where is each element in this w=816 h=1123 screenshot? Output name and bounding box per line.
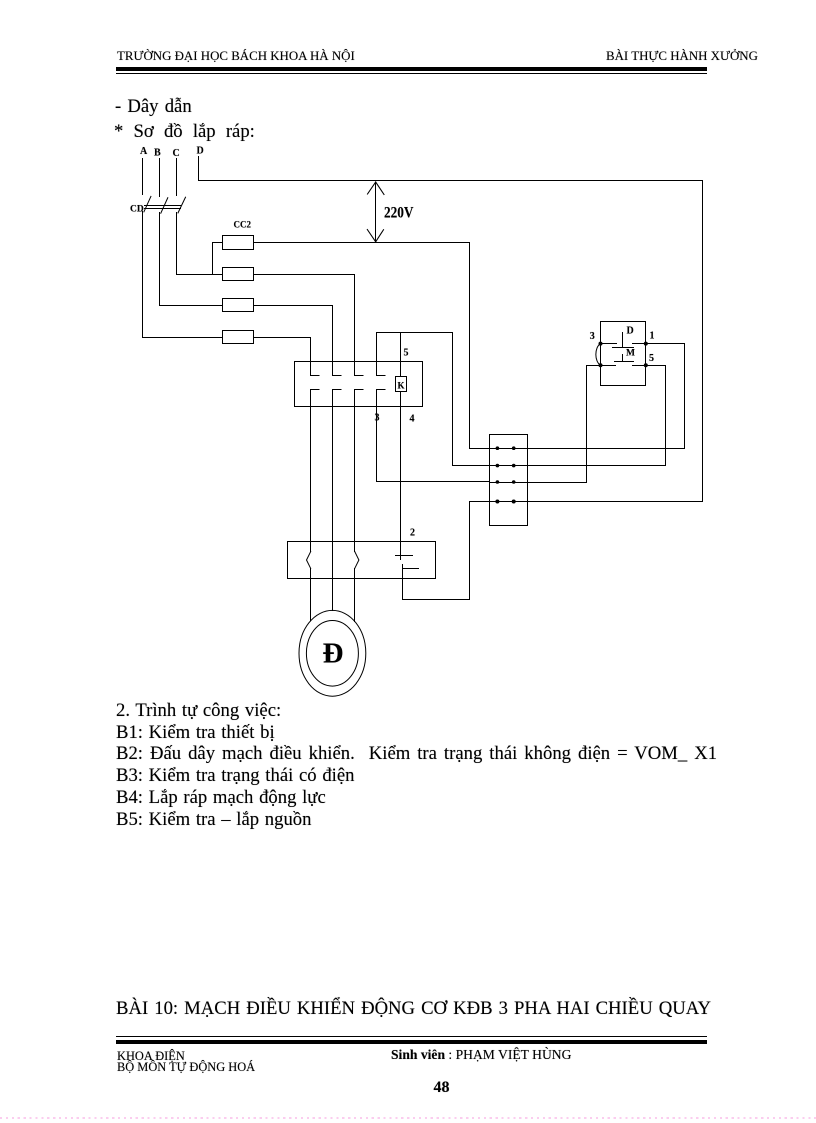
svg-text:C: C [173,148,180,159]
wire fuse F3 output [254,305,333,307]
wire phase 3 through thermal to motor (heater kink) [354,406,356,621]
wire link D output to M input (arc) [596,344,601,366]
contactor K main box [295,362,423,407]
wire phase 1 through thermal to motor (heater kink) [310,406,312,621]
wire phase B to fuse F3 [160,213,223,306]
wire fuse F4 output [254,337,311,339]
header left text [117,50,355,63]
contactor upper contact 4 (aux) [377,333,386,376]
wire coil K to thermal NC contact [400,393,402,560]
220V dimension arrow [375,182,377,242]
terminal row 3 wire [490,482,587,484]
svg-text:3: 3 [375,413,380,424]
svg-text:CD: CD [130,205,144,215]
knife switch CD blade A [144,196,151,212]
svg-text:5: 5 [649,353,654,364]
contactor upper contact 1 [311,338,320,376]
fuse F2 [223,268,254,281]
terminal row 4 dots [495,500,499,504]
svg-text:M: M [626,349,635,359]
wire thermal NC bottom to terminal row 4 [403,502,470,600]
thermal NC contact bars [396,556,419,569]
motor outer ellipse [299,610,366,696]
intro line 2 [114,123,255,142]
wire phase A upper [142,159,144,195]
footer thin rule [116,1036,707,1037]
push button station box [601,322,646,386]
footer dept line 1 [117,1050,185,1062]
junction dot button 3 [599,342,603,346]
svg-text:D: D [627,325,634,336]
wire node 5 to terminal row 2 [453,333,490,466]
svg-text:K: K [398,381,405,391]
wire phase C to fuse F2 [177,213,223,275]
terminal row 4 wire [470,501,703,503]
body text block [116,700,717,830]
terminal row 2 dots [496,464,500,468]
wire fuse F1 output to terminal row 1 [254,243,470,449]
svg-text:CC2: CC2 [234,220,252,230]
wire phase A to fuse F4 [143,212,223,338]
wire row 3 to button M input [587,366,601,483]
contactor lower contact 1 [311,390,320,407]
junction dot button 5 [644,363,648,367]
svg-text:5: 5 [404,347,409,358]
footer dept line 2 [117,1061,255,1073]
intro line 1 [115,98,192,117]
contactor lower contact 2 [333,390,342,407]
wire node 5 down to coil K [400,333,402,377]
svg-text:D: D [197,146,204,157]
push button M (start, NO) [601,355,646,366]
thermal relay box [288,542,436,579]
wire fuse F1 input tap from phase C [213,243,223,275]
wire phase D (neutral) top bus [199,157,703,181]
wire phase C upper [176,159,178,196]
svg-text:B: B [154,148,161,159]
knife switch CD blade C [178,197,186,213]
svg-text:Đ: Đ [323,637,344,669]
header thin rule [116,73,707,75]
wire phase B upper [159,159,161,197]
footer student [391,1048,571,1062]
header thick rule [116,67,707,71]
wire phase 2 to motor [332,407,334,611]
terminal row 1 wire [470,448,685,450]
terminal row 3 dots [496,480,500,484]
svg-text:4: 4 [410,414,415,425]
wire row 1 to button terminal 1 [646,344,685,449]
svg-text:A: A [140,146,148,157]
contactor upper contact 2 [333,306,342,376]
contactor upper contact 3 [355,275,364,376]
contactor lower contact 3 [355,390,364,407]
push button D (stop, NC) [601,333,646,348]
contactor lower contact 4 (aux) to terminal row 3 [377,390,490,482]
knife switch CD blade B [161,198,168,214]
junction dot button 1 [644,342,648,346]
wire fuse F2 output [254,274,355,276]
svg-text:1: 1 [650,331,655,342]
coil K box [396,377,407,392]
svg-text:220V: 220V [384,205,414,222]
fuse CC2 F1 [223,236,254,250]
terminal row 2 wire [453,465,666,467]
wire row 4 up to neutral bus [702,181,704,502]
knife switch CD linkage bar [145,206,181,209]
bottom title [116,1000,711,1019]
header right text [606,50,758,63]
svg-text:3: 3 [590,331,595,342]
decorative pink dotted rule (bottom) [0,1117,816,1119]
footer thick rule [116,1040,707,1044]
page number [434,1080,450,1096]
svg-text:2: 2 [410,528,415,539]
fuse F3 [223,299,254,312]
wire row 2 to button terminal 5 [646,366,666,466]
terminal row 1 dots [496,446,500,450]
motor inner ellipse [306,621,358,687]
node 5 bus above contactor [377,332,453,334]
terminal block box [490,435,528,526]
fuse F4 [223,331,254,344]
junction dot button M input [599,363,603,367]
